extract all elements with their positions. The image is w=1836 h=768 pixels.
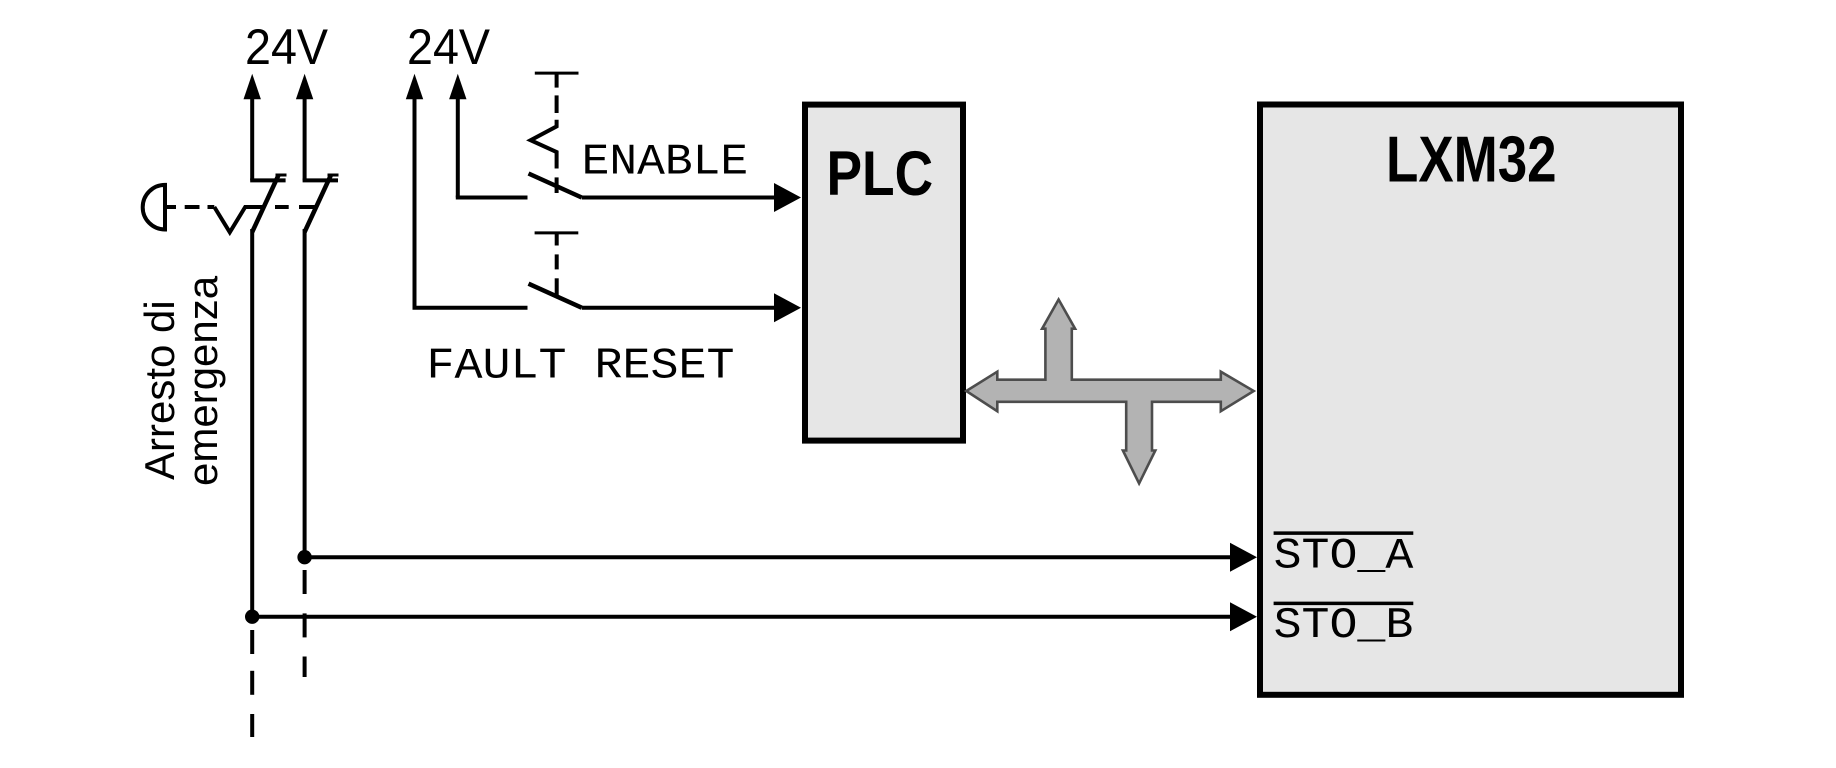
wire: contact 1 down to STO_B junction bbox=[250, 229, 254, 617]
ENABLE pushbutton actuator (T-bar, dashed link, spring detent) bbox=[531, 73, 579, 193]
e-stop mechanical link dashed line with detent V bbox=[185, 207, 317, 232]
svg-text:STO_B: STO_B bbox=[1274, 601, 1414, 651]
wire: e-stop contact 1 supply with up arrow bbox=[244, 74, 261, 181]
dashed wire below STO_A junction bbox=[303, 570, 307, 677]
STO_A wire with arrowhead into LXM32 bbox=[305, 543, 1257, 572]
rotated label: Arresto di emergenza bbox=[136, 275, 226, 486]
emergency stop NC contact 2 bbox=[303, 175, 339, 233]
svg-text:24V: 24V bbox=[407, 19, 491, 75]
svg-text:LXM32: LXM32 bbox=[1386, 122, 1557, 195]
dashed wire below STO_B junction bbox=[250, 630, 254, 737]
svg-text:STO_A: STO_A bbox=[1274, 532, 1414, 582]
wire: 24V up arrow to ENABLE input bbox=[449, 74, 527, 198]
FAULT RESET switch NO contact blade bbox=[529, 284, 582, 308]
LXM32 box bbox=[1260, 105, 1681, 695]
svg-text:emergenza: emergenza bbox=[179, 275, 226, 486]
wire: 24V up arrow to FAULT RESET input bbox=[406, 74, 528, 308]
svg-text:Arresto di: Arresto di bbox=[136, 300, 183, 480]
junction dot STO_A wire bbox=[297, 550, 311, 564]
STO_A pin label with overline bbox=[1274, 532, 1414, 582]
ENABLE switch output wire to PLC with arrowhead bbox=[582, 183, 801, 212]
e-stop mushroom button head bbox=[143, 185, 165, 230]
STO_B pin label with overline bbox=[1274, 601, 1414, 651]
emergency stop NC contact 1 bbox=[250, 175, 286, 233]
svg-text:24V: 24V bbox=[245, 19, 329, 75]
fieldbus gray cross arrow between PLC and LXM32 bbox=[966, 300, 1253, 484]
wire: contact 2 down to STO_A junction bbox=[303, 229, 307, 557]
junction dot STO_B wire bbox=[245, 610, 259, 624]
wire: e-stop contact 2 supply with up arrow bbox=[296, 74, 313, 181]
svg-text:FAULT RESET: FAULT RESET bbox=[427, 342, 735, 392]
ENABLE switch NO contact blade bbox=[529, 174, 582, 198]
FAULT RESET switch output wire to PLC with arrowhead bbox=[582, 293, 801, 322]
FAULT RESET pushbutton actuator (T-bar and dashed link) bbox=[535, 233, 579, 296]
svg-text:ENABLE: ENABLE bbox=[582, 137, 749, 187]
PLC box bbox=[805, 105, 963, 441]
svg-text:PLC: PLC bbox=[827, 139, 934, 209]
e-stop actuator stem bbox=[165, 205, 176, 209]
STO_B wire with arrowhead into LXM32 bbox=[252, 602, 1257, 631]
